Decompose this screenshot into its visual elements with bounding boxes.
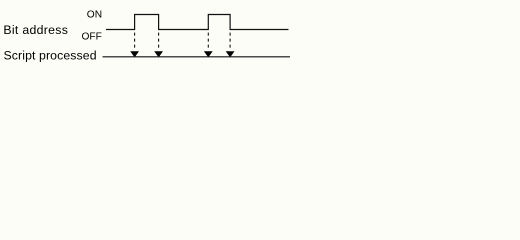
dashed drop line edge2 — [158, 33, 160, 48]
svg-text:Bit address: Bit address — [3, 23, 68, 37]
arrowhead 1 — [130, 51, 139, 57]
svg-text:OFF: OFF — [82, 32, 102, 43]
arrowhead 3 — [204, 51, 213, 57]
svg-text:ON: ON — [87, 10, 102, 21]
dashed drop line edge1 — [134, 33, 136, 48]
dashed drop line edge3 — [207, 33, 209, 48]
waveform bit-address signal — [106, 15, 289, 30]
arrowhead 4 — [226, 51, 235, 57]
svg-text:Script processed: Script processed — [4, 48, 97, 62]
dashed drop line edge4 — [229, 33, 231, 48]
arrowhead 2 — [154, 51, 163, 57]
script processed timeline — [103, 56, 291, 58]
